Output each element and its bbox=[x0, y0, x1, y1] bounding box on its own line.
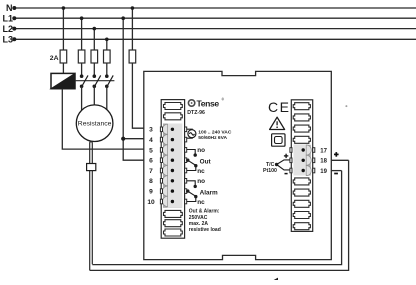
right strip unused cells bottom bbox=[293, 178, 310, 230]
node L2 start bbox=[12, 27, 16, 31]
node N start bbox=[12, 6, 16, 10]
rail L3 bbox=[14, 38, 416, 40]
contact K1-2 bbox=[95, 75, 100, 85]
node L1-F2 bbox=[80, 16, 84, 20]
wire terminal 18 to T/C + bbox=[331, 159, 348, 161]
svg-text:L2: L2 bbox=[3, 24, 14, 34]
fuse F2 bbox=[78, 50, 85, 63]
svg-text:Tense: Tense bbox=[197, 98, 220, 108]
wire N drop to 2A fuse and SSR A1 bbox=[62, 8, 64, 73]
svg-text:19: 19 bbox=[320, 169, 327, 175]
svg-text:100 .. 240 VAC: 100 .. 240 VAC bbox=[198, 129, 232, 135]
node L3 start bbox=[12, 37, 16, 41]
thermocouple probe bbox=[90, 142, 93, 271]
heater Resistance bbox=[76, 105, 113, 142]
power supply symbol bbox=[187, 129, 196, 138]
wire branch to terminal 4 bbox=[123, 138, 144, 140]
TENSE logo bbox=[187, 98, 224, 116]
svg-text:18: 18 bbox=[320, 159, 327, 165]
label + outside bbox=[334, 152, 339, 157]
warning triangle bbox=[270, 117, 285, 129]
device DTZ-96 box bbox=[144, 71, 331, 259]
node L1 junction T4 bbox=[121, 137, 125, 141]
rail N bbox=[14, 7, 416, 9]
contact K1-3 bbox=[108, 75, 113, 85]
svg-text:2A: 2A bbox=[50, 55, 59, 62]
left strip side tabs bbox=[160, 127, 186, 204]
svg-text:10: 10 bbox=[147, 199, 155, 206]
faint speck bbox=[345, 105, 347, 107]
svg-text:nc: nc bbox=[197, 199, 205, 206]
node L1 start bbox=[12, 16, 16, 20]
node L3-F4 bbox=[105, 38, 109, 42]
wire N drop via fuse F5 to terminal 3 bbox=[132, 8, 143, 128]
terminal strip left gray block 3-10 bbox=[163, 124, 182, 208]
svg-text:max. 2A: max. 2A bbox=[189, 221, 209, 227]
svg-text:7: 7 bbox=[149, 168, 153, 175]
wire L1 drop to fuse F2 bbox=[81, 18, 83, 76]
terminal numbers 17-19 bbox=[320, 148, 327, 175]
svg-text:Pt100: Pt100 bbox=[263, 168, 277, 174]
fuse F1 2A bbox=[60, 50, 67, 63]
T/C cable bottom run bbox=[90, 160, 349, 270]
svg-text:no: no bbox=[197, 178, 205, 185]
svg-text:L1: L1 bbox=[3, 13, 14, 23]
wire L2 drop to fuse F3 bbox=[93, 29, 95, 77]
terminal numbers 3-10 bbox=[147, 127, 155, 206]
svg-text:Alarm: Alarm bbox=[200, 189, 218, 196]
svg-text:50/60Hz 6VA: 50/60Hz 6VA bbox=[198, 135, 227, 141]
svg-text:5: 5 bbox=[149, 147, 153, 154]
solid state relay K1 bbox=[51, 73, 75, 88]
probe gland bbox=[87, 164, 96, 171]
label Out & Alarm ratings bbox=[189, 209, 221, 233]
terminal screws 17-19 bbox=[302, 148, 305, 172]
right strip side tabs bbox=[290, 148, 315, 173]
terminal strip left unused cells top (1,2) bbox=[164, 103, 183, 120]
svg-text:DTZ-96: DTZ-96 bbox=[187, 110, 205, 116]
double insulation symbol bbox=[272, 134, 285, 146]
wire SSR A2 to terminal 5 bbox=[62, 89, 144, 149]
fuse F4 bbox=[104, 50, 111, 63]
right strip unused cells top bbox=[293, 103, 310, 144]
svg-text:4: 4 bbox=[149, 137, 153, 144]
junction dots on rails bbox=[12, 6, 134, 141]
fuse F3 bbox=[91, 50, 98, 63]
terminal strip right frame bbox=[291, 100, 312, 232]
svg-text:9: 9 bbox=[149, 189, 153, 196]
svg-text:nc: nc bbox=[197, 168, 205, 175]
svg-text:17: 17 bbox=[320, 148, 327, 154]
contact K1-1 bbox=[83, 75, 88, 85]
svg-text:®: ® bbox=[222, 98, 225, 102]
contactor linkage bbox=[75, 80, 114, 82]
rail labels bbox=[3, 3, 14, 44]
svg-text:N: N bbox=[6, 3, 13, 13]
svg-text:CE: CE bbox=[268, 99, 290, 115]
rail L1 bbox=[14, 17, 416, 19]
bottom page mark bbox=[274, 278, 278, 280]
svg-text:6: 6 bbox=[149, 158, 153, 165]
wire L1 drop to terminals 4 and 6 bbox=[123, 18, 144, 160]
label - inside bbox=[285, 173, 288, 175]
fuse F5 bbox=[129, 50, 136, 63]
svg-text:8: 8 bbox=[149, 178, 153, 185]
node N-F1 bbox=[62, 6, 66, 10]
svg-text:Resistance: Resistance bbox=[78, 121, 112, 128]
svg-text:no: no bbox=[197, 147, 205, 154]
node L2-F3 bbox=[93, 27, 97, 31]
terminal screws 3-10 bbox=[171, 128, 174, 204]
wire contacts to heater bbox=[82, 86, 107, 112]
svg-text:Out & Alarm:: Out & Alarm: bbox=[189, 209, 220, 215]
node L1-supply bbox=[121, 16, 125, 20]
svg-text:resistive load: resistive load bbox=[189, 227, 221, 233]
terminal strip left frame bbox=[161, 100, 184, 239]
svg-text:L3: L3 bbox=[3, 35, 14, 45]
svg-text:3: 3 bbox=[149, 127, 153, 134]
relay contact OUT bbox=[187, 150, 196, 171]
right strip gray block 17-19 bbox=[294, 145, 311, 176]
node N-supply bbox=[131, 6, 135, 10]
rail L2 bbox=[14, 28, 416, 30]
relay contact ALARM bbox=[187, 181, 196, 202]
terminal strip left unused cells bottom (11-13) bbox=[164, 210, 183, 236]
wire terminal 19 to T/C - bbox=[331, 170, 341, 172]
label + inside bbox=[284, 154, 288, 158]
wire L3 drop to fuse F4 bbox=[106, 39, 108, 76]
svg-text:Out: Out bbox=[200, 158, 212, 165]
label - outside bbox=[334, 173, 338, 175]
